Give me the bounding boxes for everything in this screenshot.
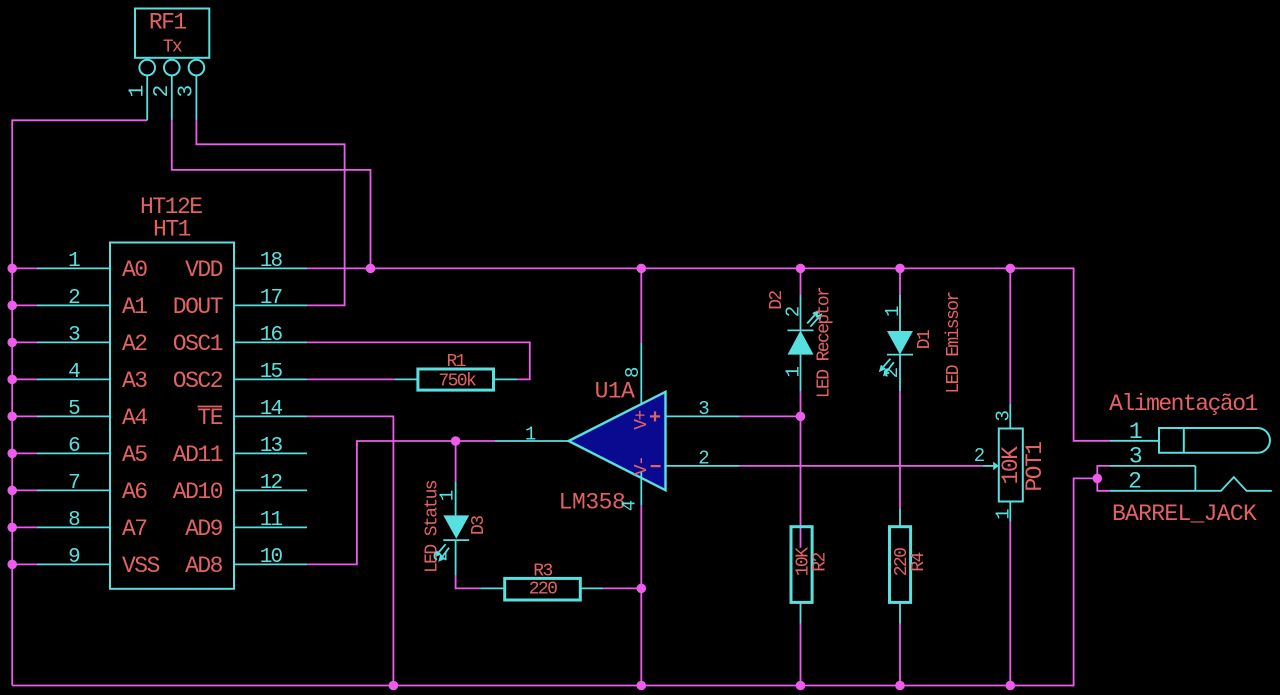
svg-text:220: 220 (529, 579, 557, 599)
wire jack pins 2-3 tie (1097, 466, 1110, 491)
svg-text:R2: R2 (810, 553, 830, 572)
junction node dots left rail (7, 264, 17, 570)
HT1 left pins (37, 268, 110, 564)
svg-text:3: 3 (1129, 444, 1142, 470)
LED D3 (436, 481, 470, 575)
svg-text:3: 3 (68, 324, 80, 347)
HT1 right pins (234, 268, 307, 564)
op-amp U1A (495, 343, 740, 506)
svg-text:10K: 10K (998, 446, 1024, 485)
svg-text:2: 2 (698, 447, 709, 469)
svg-text:A0: A0 (122, 257, 147, 283)
svg-text:16: 16 (260, 324, 283, 347)
svg-text:3: 3 (176, 85, 199, 97)
wire node to D3 anode (455, 441, 457, 481)
svg-text:HT1: HT1 (153, 217, 191, 243)
svg-text:18: 18 (260, 250, 283, 273)
svg-text:R1: R1 (446, 352, 465, 372)
svg-text:1: 1 (525, 423, 536, 445)
wire R3 right to pin4 column (603, 587, 641, 589)
wire opamp pin4 to bottom rail (640, 506, 642, 686)
svg-text:8: 8 (68, 509, 80, 532)
svg-text:A3: A3 (122, 368, 147, 394)
svg-text:V+: V+ (632, 411, 652, 430)
wire opamp -in to POT1 wiper (740, 465, 983, 467)
svg-text:BARREL_JACK: BARREL_JACK (1112, 501, 1257, 527)
svg-text:A4: A4 (122, 405, 147, 431)
svg-text:Tx: Tx (163, 38, 182, 58)
svg-text:U1A: U1A (595, 379, 635, 405)
svg-text:4: 4 (68, 361, 80, 384)
svg-text:2: 2 (881, 367, 903, 378)
RF module RF1 (135, 9, 209, 121)
wire left rail stubs to HT1 pins (12, 268, 38, 564)
LED D1 (880, 295, 913, 391)
wire D1 top to VDD rail (899, 268, 901, 295)
svg-text:13: 13 (260, 435, 283, 458)
svg-text:A2: A2 (122, 331, 147, 357)
svg-text:A7: A7 (122, 516, 147, 542)
wire VDD rail (307, 268, 1110, 440)
HT1 right pin names (173, 257, 223, 579)
wire bottom rail (12, 478, 1097, 685)
node jack pins 2-3 (1093, 474, 1103, 484)
resistor R1 (395, 369, 517, 390)
svg-text:VSS: VSS (122, 553, 160, 579)
svg-text:15: 15 (260, 361, 283, 384)
wire RF1 pin3 to DOUT (196, 120, 344, 305)
svg-text:9: 9 (68, 546, 80, 569)
wire AD8 to opamp output node (307, 441, 495, 564)
svg-text:4: 4 (619, 500, 641, 511)
wire OSC2 to R1 left (307, 378, 395, 380)
svg-text:R4: R4 (909, 553, 929, 572)
svg-text:LM358: LM358 (559, 489, 626, 515)
svg-text:A1: A1 (122, 294, 147, 320)
resistor R3 (480, 578, 603, 600)
node D2 bottom / +in (796, 412, 806, 422)
svg-text:LED Receptor: LED Receptor (815, 287, 835, 398)
opamp -in marker (651, 465, 661, 467)
wire D2 top to VDD rail (800, 268, 802, 295)
svg-text:DOUT: DOUT (173, 294, 223, 320)
HT1 right pin numbers 18-10 (260, 250, 283, 569)
svg-text:750k: 750k (438, 372, 476, 392)
svg-text:8: 8 (622, 367, 644, 378)
IC HT1 HT12E body (110, 243, 234, 589)
svg-text:V-: V- (632, 457, 652, 475)
wire D3 cathode to R3 left (456, 576, 481, 589)
svg-text:POT1: POT1 (1022, 442, 1048, 492)
svg-text:2: 2 (1128, 469, 1141, 495)
wire RF1 pin1 to left rail (12, 120, 147, 685)
svg-text:D1: D1 (915, 330, 935, 349)
svg-text:1: 1 (127, 85, 150, 97)
wire TE to bottom rail (307, 416, 393, 685)
svg-text:LED Emissor: LED Emissor (944, 292, 964, 394)
opamp +in marker (650, 411, 660, 421)
svg-text:7: 7 (68, 472, 79, 495)
svg-text:1: 1 (882, 306, 904, 317)
svg-text:12: 12 (260, 472, 283, 495)
potentiometer POT1 (983, 404, 1023, 522)
wire opamp +in to D2 node (740, 415, 801, 417)
svg-text:AD11: AD11 (173, 442, 223, 468)
svg-text:1: 1 (68, 250, 80, 273)
wire POT1 bottom to rail (1009, 522, 1011, 686)
svg-text:2: 2 (783, 306, 805, 317)
svg-text:10: 10 (260, 546, 283, 569)
svg-text:AD9: AD9 (185, 516, 223, 542)
svg-text:Alimentação1: Alimentação1 (1109, 391, 1257, 417)
junction dots VDD rail (366, 264, 1015, 274)
wire OSC1 to R1 right (307, 342, 530, 379)
svg-text:17: 17 (260, 287, 282, 310)
svg-text:AD10: AD10 (173, 479, 223, 505)
node opamp output / AD8 / D3 (451, 436, 461, 446)
wire D1 bottom to R4 top (899, 391, 901, 508)
svg-text:D3: D3 (469, 516, 489, 535)
svg-text:1: 1 (437, 490, 459, 501)
junction dots bottom rail (389, 681, 1016, 691)
wire R2 bottom to rail (800, 624, 802, 686)
barrel jack Alimentacao1 (1110, 428, 1272, 491)
wire D2 bottom to R2 (800, 391, 802, 548)
svg-text:1: 1 (783, 366, 805, 377)
svg-text:VDD: VDD (185, 257, 223, 283)
svg-text:OSC2: OSC2 (173, 368, 223, 394)
svg-text:14: 14 (260, 398, 283, 421)
LED D2 (788, 295, 822, 391)
svg-text:OSC1: OSC1 (173, 331, 223, 357)
resistor R4 (890, 508, 911, 623)
svg-text:1: 1 (1129, 419, 1142, 445)
svg-text:2: 2 (974, 445, 985, 467)
svg-text:1: 1 (992, 509, 1014, 520)
wire opamp pin8 to VDD rail (640, 268, 642, 343)
svg-text:6: 6 (68, 435, 80, 458)
svg-text:AD8: AD8 (185, 553, 223, 579)
svg-text:RF1: RF1 (149, 10, 187, 36)
wire RF1 pin2 to VDD rail (172, 120, 371, 268)
wire POT1 top to VDD rail (1009, 268, 1011, 404)
svg-text:2: 2 (68, 287, 80, 310)
svg-text:2: 2 (431, 551, 453, 562)
svg-text:A5: A5 (122, 442, 147, 468)
svg-text:2: 2 (151, 85, 174, 97)
TE overline (198, 406, 223, 408)
svg-text:11: 11 (260, 509, 283, 532)
svg-text:5: 5 (68, 398, 80, 421)
svg-text:A6: A6 (122, 479, 147, 505)
wire R4 bottom to rail (899, 624, 901, 686)
svg-text:TE: TE (197, 405, 222, 431)
svg-text:D2: D2 (767, 291, 787, 310)
HT1 left pin numbers 1-9 (68, 250, 80, 569)
resistor R2 (791, 527, 812, 624)
HT1 left pin names (122, 257, 160, 579)
svg-text:3: 3 (698, 398, 709, 420)
node R3 right / pin4 (637, 584, 647, 594)
svg-text:3: 3 (992, 410, 1014, 421)
